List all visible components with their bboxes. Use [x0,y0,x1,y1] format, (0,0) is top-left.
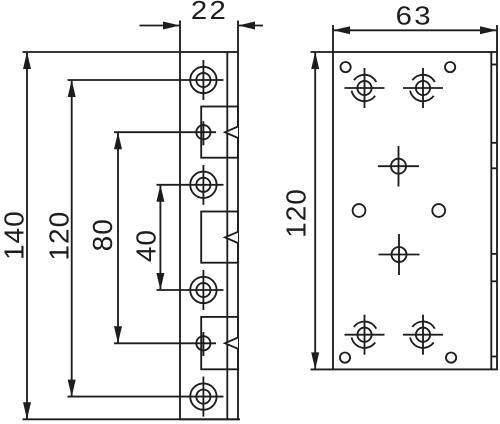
dim 140 extension top [23,51,181,53]
arrow 120L down [68,380,76,397]
edge tick 5 [491,280,497,282]
left view plate outline [180,52,238,419]
hole 4 big circle [190,277,216,303]
corner hole O3 [340,353,350,363]
hole 5 small circle [196,336,210,350]
edge tick 6 [491,356,497,358]
center hole H1 [391,159,406,174]
dim 63 extension left [332,25,334,52]
dim 40 extension top / hole3 centerline [157,184,224,186]
dim 22 extension right [237,21,239,53]
hole 6 big circle [190,383,216,409]
arrow 40 down [156,273,164,290]
corner hole O2 [445,62,455,72]
dim 40 line [159,185,161,290]
svg-text:22: 22 [191,0,228,24]
corner hole O4 [446,353,456,363]
arrow 63 left [333,26,350,34]
arrow 63 right [480,26,497,34]
edge tick 2 [491,142,497,144]
arrow 80 up [114,132,122,149]
hole 2 vertical centerline [202,121,204,145]
svg-text:120: 120 [281,188,312,238]
svg-text:80: 80 [87,218,118,251]
dim 80 extension top / hole2 centerline [114,131,216,133]
notch 3 [225,338,238,349]
dim 120 left line [71,80,73,397]
hole 3 big circle [190,172,216,198]
dim 120 right extension top [311,51,334,53]
dim 120 right line [314,52,316,369]
dim 22 extension left [179,21,181,53]
arrow 80 down [114,326,122,343]
dim 120 left extension bottom / hole6 centerline [68,396,224,398]
arrow 22 pointing right [163,22,180,30]
cutout box 2 [201,212,238,263]
threaded hole T1 [357,81,371,95]
cutout box 3 [201,317,238,369]
svg-text:120: 120 [43,211,74,261]
dim 63 line [333,29,497,31]
corner hole O1 [341,62,351,72]
edge tick 3 [491,167,497,169]
dim 63 extension right [496,25,498,52]
hole 5 vertical centerline [202,332,204,356]
arrow 120R up [311,52,319,69]
dim 120 left extension top / hole1 centerline [68,79,224,81]
dim 40 extension bottom / hole4 centerline [157,289,224,291]
dim 140 line [26,52,28,419]
notch 2 [225,232,238,243]
arrow 22 pointing left [238,22,255,30]
hole 1 big circle [190,67,216,93]
center hole H2 [392,247,407,262]
threaded hole T3 [357,328,371,342]
arrow 120R down [311,352,319,369]
hole 1 vertical centerline [202,60,204,100]
left view inner edge line [226,52,228,419]
dim 80 line [117,132,119,343]
right view plate outline [333,52,497,369]
dim 22 line right part [238,25,263,27]
dim 80 extension bottom / hole5 centerline [114,342,216,344]
svg-text:40: 40 [131,229,162,262]
threaded hole T4 [416,328,430,342]
right view inner edge line [490,52,492,369]
edge tick 1 [491,64,497,66]
dim 22 line left part [140,25,181,27]
svg-text:63: 63 [396,2,433,31]
svg-text:140: 140 [0,210,30,260]
arrow 120L up [68,80,76,97]
edge tick 4 [491,253,497,255]
threaded hole T2 [416,81,430,95]
cutout box 1 [201,107,238,158]
hole 2 small circle [196,125,210,139]
arrow 140 up [23,52,31,69]
arrow 140 down [23,402,31,419]
side hole S1 [353,204,366,217]
hole 4 vertical centerline [202,270,204,310]
notch 1 [225,127,238,139]
dim 120 right extension bottom [311,368,334,370]
hole 3 vertical centerline [202,165,204,205]
dim 140 extension bottom [23,418,241,420]
hole 6 vertical centerline [202,377,204,417]
side hole S2 [432,204,445,217]
arrow 40 up [156,185,164,202]
